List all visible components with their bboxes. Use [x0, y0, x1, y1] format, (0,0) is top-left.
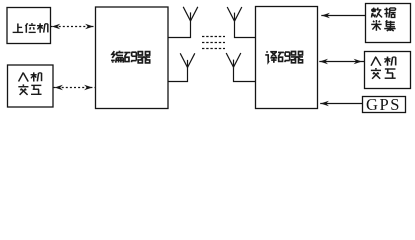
wire 人机交互-编码器 double arrow [54, 85, 96, 91]
box GPS [363, 97, 406, 113]
text 编码器 [111, 51, 150, 63]
text 译码器 [265, 51, 303, 63]
wire 上位机-编码器 double arrow [51, 24, 96, 30]
text 上位机 [13, 23, 48, 33]
text 交互 (left line 2) [18, 84, 41, 94]
box 人机交互 (left) [8, 65, 54, 107]
antenna encoder top [169, 7, 198, 38]
wireless link dashed line 3 [202, 48, 225, 50]
wireless link dashed line 1 [202, 36, 225, 38]
text 交互 (right line 2) [371, 68, 396, 79]
antenna decoder top [227, 7, 255, 38]
box 上位机 [7, 8, 51, 44]
wire GPS-译码器 arrow [320, 101, 362, 107]
svg-text:GPS: GPS [366, 95, 401, 114]
text 人机 (left line 1) [19, 72, 42, 81]
box 译码器 decoder [256, 7, 318, 109]
antenna decoder bottom [226, 53, 255, 82]
antenna encoder bottom [169, 53, 195, 81]
wireless link dashed line 2 [202, 42, 225, 44]
wire 数据采集-译码器 arrow [321, 13, 365, 19]
box 人机交互 (right) [365, 52, 411, 89]
wire 人机交互-译码器 double arrow [319, 59, 364, 65]
text 人机 (right line 1) [371, 57, 396, 66]
text 数据 [371, 8, 396, 18]
text 采集 [371, 20, 395, 31]
box 数据采集 [366, 4, 411, 43]
box 编码器 encoder [96, 7, 169, 109]
